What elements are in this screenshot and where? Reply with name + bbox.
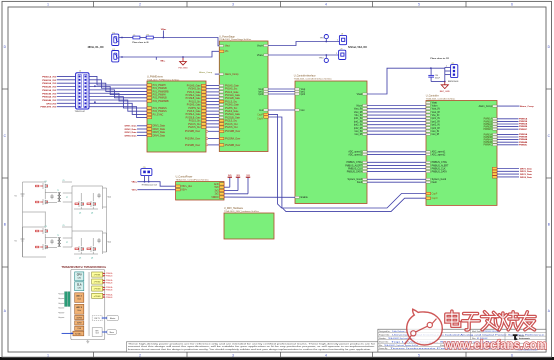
wires labels to J4 — [57, 76, 76, 106]
svg-text:TSW-110-07: TSW-110-07 — [75, 111, 86, 113]
svg-text:3V3: 3V3 — [215, 190, 220, 192]
svg-text:PMBUS_CLK: PMBUS_CLK — [348, 168, 362, 170]
svg-text:VBa+: VBa+ — [161, 29, 167, 31]
cpu box CPU — [75, 272, 84, 281]
svg-text:ePWM4: ePWM4 — [94, 296, 101, 298]
svg-text:Vbu_IN: Vbu_IN — [354, 115, 362, 117]
svg-text:System_Good: System_Good — [432, 178, 447, 181]
connector J11 — [445, 65, 458, 78]
J15 pin stubs — [144, 176, 146, 182]
bridge interconnect wires — [23, 202, 107, 257]
svg-text:PWM1A: PWM1A — [484, 118, 493, 121]
svg-text:V1: V1 — [15, 241, 17, 243]
svg-text:Q6: Q6 — [91, 258, 93, 260]
svg-text:Number:: Number: — [379, 337, 387, 340]
svg-text:PV2SLB_Gate: PV2SLB_Gate — [186, 116, 202, 119]
wire PowerStage Vout+ to J8 — [268, 42, 339, 46]
svg-text:PV1SLB_Gate: PV1SLB_Gate — [225, 97, 241, 100]
svg-text:Vout_Rf: Vout_Rf — [354, 111, 363, 114]
svg-text:Fault: Fault — [432, 181, 437, 184]
svg-text:DRV2_Data: DRV2_Data — [125, 128, 138, 131]
svg-text:Designed for:: Designed for: — [379, 330, 391, 333]
svg-text:Ipri1_Rf: Ipri1_Rf — [432, 120, 440, 123]
svg-text:PV2_PWMLB: PV2_PWMLB — [153, 98, 168, 100]
svg-text:PV2SRB_Over: PV2SRB_Over — [185, 144, 201, 147]
svg-text:ADC_speed1: ADC_speed1 — [348, 151, 362, 154]
svg-text:PMBUS_ALERT: PMBUS_ALERT — [432, 164, 449, 167]
svg-text:Vbatt: Vbatt — [357, 93, 363, 96]
svg-text:Iout: Iout — [259, 109, 263, 112]
svg-text:PV1_PWMLS: PV1_PWMLS — [153, 108, 168, 110]
svg-text:PWM-3A_3V3: PWM-3A_3V3 — [42, 89, 57, 92]
svg-text:ADC_speed2: ADC_speed2 — [348, 153, 362, 156]
svg-text:PV2CS_Out: PV2CS_Out — [225, 126, 238, 129]
svg-text:Vout: Vout — [225, 45, 230, 48]
U_PowerStage CapP CapN pins — [264, 113, 269, 115]
svg-text:PV2LS_Gate: PV2LS_Gate — [187, 110, 201, 113]
svg-text:BATMON4-B: BATMON4-B — [448, 80, 459, 83]
cpu ground symbol — [87, 340, 89, 342]
svg-text:6: 6 — [511, 353, 513, 357]
svg-text:Ipri2_Rf: Ipri2_Rf — [432, 127, 440, 130]
inductor L1 — [133, 36, 140, 39]
svg-text:TIDA-1001_Controller.SchDoc: TIDA-1001_Controller.SchDoc — [426, 97, 456, 100]
svg-text:PMBUS_ALERT: PMBUS_ALERT — [345, 164, 362, 167]
wire V5V+ to ControlPower — [137, 189, 175, 191]
elecfans watermark — [405, 309, 547, 352]
fuse F3 — [146, 36, 153, 39]
TI logo — [513, 334, 530, 340]
svg-text:PV2SLB_Gate: PV2SLB_Gate — [225, 116, 241, 119]
svg-text:Vout_IN: Vout_IN — [354, 108, 363, 111]
svg-text:PV1_PWMLB: PV1_PWMLB — [153, 88, 168, 90]
svg-text:Sheet Title:: Sheet Title: — [379, 341, 389, 344]
svg-text:V5V+: V5V+ — [132, 190, 138, 192]
title block grid — [378, 329, 546, 352]
svg-text:ADC_speed1: ADC_speed1 — [432, 151, 446, 154]
svg-text:licensees do not warrant that: licensees do not warrant that the design… — [128, 348, 372, 351]
svg-text:U_PWMDrivers: U_PWMDrivers — [147, 76, 164, 79]
svg-text:1: 1 — [336, 53, 337, 55]
svg-text:DRV1_Data: DRV1_Data — [520, 167, 533, 170]
svg-text:PV2LS_Gate: PV2LS_Gate — [225, 110, 239, 113]
svg-text:3: 3 — [232, 2, 234, 6]
svg-text:CapP: CapP — [257, 114, 263, 116]
svg-text:1V2: 1V2 — [215, 194, 220, 196]
svg-text:3: 3 — [232, 353, 234, 357]
connector J4 header — [76, 73, 89, 109]
svg-text:CPU: CPU — [77, 275, 82, 277]
svg-text:PWM-2B_3V3: PWM-2B_3V3 — [42, 87, 57, 89]
disclaimer text — [128, 342, 376, 351]
discrete bridge stage 2 — [15, 225, 112, 260]
wire L1 to F3 — [140, 37, 146, 39]
svg-text:PV2_PWMSRB: PV2_PWMSRB — [153, 101, 169, 103]
wire Enable to ControlPower — [224, 196, 295, 198]
svg-text:Ipri1_Rf: Ipri1_Rf — [354, 120, 362, 123]
svg-text:PV2SRB_Over: PV2SRB_Over — [225, 144, 241, 147]
svg-text:PV2CS_Out: PV2CS_Out — [188, 126, 201, 129]
svg-text:SDFM: SDFM — [77, 323, 82, 325]
svg-text:These high-density power produ: These high-density power products are fo… — [128, 342, 376, 345]
U_ControlPower left pins — [176, 185, 181, 187]
svg-text:Project Title:: Project Title: — [379, 333, 390, 336]
wire PowerStage Vbat+ to J9 — [268, 54, 339, 56]
svg-text:PWM-1B: PWM-1B — [106, 276, 112, 278]
wires PowerStage to ControllerInterface — [258, 88, 305, 112]
svg-text:PV1HS_Gate: PV1HS_Gate — [225, 84, 240, 87]
svg-text:TIDA-1001_ControlPower.SchDoc: TIDA-1001_ControlPower.SchDoc — [176, 178, 210, 181]
svg-text:PV1_PWMH: PV1_PWMH — [153, 85, 166, 87]
svg-text:PMBUS_DATA: PMBUS_DATA — [347, 171, 363, 174]
svg-text:PWM-SYN_3V3: PWM-SYN_3V3 — [41, 107, 57, 109]
stub to VBa+ — [162, 31, 164, 38]
fuse F1 — [112, 34, 119, 45]
wire CapN bus — [268, 117, 426, 212]
svg-text:U_PowerStage: U_PowerStage — [219, 35, 235, 38]
svg-text:PWM4A: PWM4A — [519, 138, 528, 141]
svg-text:Vout: Vout — [108, 241, 112, 244]
svg-text:PWM4A: PWM4A — [484, 139, 493, 142]
svg-text:C7: C7 — [66, 242, 68, 244]
cpu Slave label — [107, 330, 117, 335]
svg-text:CapP: CapP — [432, 193, 438, 195]
svg-text:Q6: Q6 — [91, 213, 93, 215]
svg-text:ePWM2: ePWM2 — [94, 282, 101, 284]
svg-text:PV2SLA_Gate: PV2SLA_Gate — [225, 113, 241, 116]
svg-text:5V0: 5V0 — [215, 187, 220, 189]
svg-text:www.elecfans.com: www.elecfans.com — [443, 337, 547, 352]
sheet symbol U_ControlPower — [176, 182, 224, 201]
svg-text:C5: C5 — [63, 180, 65, 182]
svg-text:5V0: 5V0 — [228, 175, 231, 177]
sheet symbol U_ControllerInterface — [295, 81, 367, 204]
svg-text:DRV2_Data: DRV2_Data — [520, 170, 533, 173]
svg-text:Q1: Q1 — [45, 181, 47, 183]
cpu box ADC1 — [75, 293, 84, 303]
svg-text:PWM-4B_3V3: PWM-4B_3V3 — [42, 99, 57, 102]
svg-text:Ipri2_IN: Ipri2_IN — [432, 124, 440, 127]
svg-text:PV1SLB_Gate: PV1SLB_Gate — [186, 97, 202, 100]
svg-text:PMBUS_CLK: PMBUS_CLK — [432, 168, 446, 170]
svg-text:C28x: C28x — [77, 278, 81, 280]
svg-text:1V2: 1V2 — [246, 175, 249, 177]
svg-text:PWM2C: PWM2C — [483, 129, 492, 131]
svg-text:2: 2 — [139, 353, 141, 357]
svg-text:PV2SRA_Over: PV2SRA_Over — [185, 137, 201, 140]
svg-text:Place close to J11: Place close to J11 — [430, 57, 450, 60]
svg-text:2: 2 — [139, 2, 141, 6]
U_PowerStage right top pins — [264, 44, 268, 46]
wire cap to gnd — [431, 81, 445, 83]
cpu internal bus — [87, 272, 89, 336]
cpu box SDFM — [75, 321, 84, 325]
svg-text:CLB: CLB — [96, 333, 99, 335]
svg-text:PMBUS_CTRL: PMBUS_CTRL — [347, 162, 363, 164]
U_Controller right pins and net labels — [479, 105, 535, 179]
cpu ePWM boxes with arrows — [92, 272, 114, 299]
svg-text:Q3: Q3 — [45, 226, 47, 228]
svg-text:Iout_IN: Iout_IN — [355, 130, 363, 133]
wire bus J4 to PWMDrivers — [89, 76, 147, 117]
svg-text:Ipri1_IN: Ipri1_IN — [354, 117, 362, 120]
test point TP10 — [324, 58, 328, 62]
svg-text:HT3M4-1Q1-D 1-B: HT3M4-1Q1-D 1-B — [142, 184, 158, 186]
black bottom strip — [0, 357, 554, 360]
cpu box CMPSS — [75, 315, 84, 319]
svg-text:Vbatt: Vbatt — [432, 102, 438, 105]
cpu outer box — [71, 269, 105, 339]
svg-text:PV2SLA_Gate: PV2SLA_Gate — [186, 113, 202, 116]
test point TP3 — [324, 35, 328, 39]
svg-text:PV2LS_Src: PV2LS_Src — [189, 120, 202, 123]
svg-text:PV1SRB_Over: PV1SRB_Over — [225, 130, 241, 133]
svg-text:PWM2A: PWM2A — [484, 123, 493, 126]
svg-text:Q5: Q5 — [79, 213, 81, 215]
power rails above ControlPower — [224, 175, 250, 194]
svg-text:1: 1 — [446, 66, 447, 68]
svg-text:SPI /: SPI / — [95, 330, 99, 332]
discrete bridge stage 1 — [15, 180, 112, 215]
svg-text:Alarm_Comp: Alarm_Comp — [479, 105, 493, 108]
U_PWMDrivers left pins — [147, 84, 169, 138]
U_ControlPower right pins — [211, 183, 224, 199]
connector J9 — [339, 50, 346, 59]
wire CI to J11 — [367, 68, 445, 94]
U_PowerStage top-left pins — [219, 45, 230, 54]
svg-text:Enable: Enable — [301, 197, 309, 199]
svg-text:PV2HS_Gate: PV2HS_Gate — [225, 104, 240, 107]
wires PWMDrivers to PowerStage with pins — [185, 84, 241, 147]
sheet symbol U_PowerStage — [219, 41, 268, 152]
svg-text:DRV2_Data: DRV2_Data — [153, 128, 166, 131]
svg-text:CapN: CapN — [257, 118, 263, 120]
svg-text:Alarm_Comp: Alarm_Comp — [199, 71, 213, 74]
svg-text:1: 1 — [337, 40, 338, 42]
svg-text:Ipri1_IN: Ipri1_IN — [432, 117, 440, 120]
svg-text:VBa+: VBa+ — [131, 182, 137, 184]
U_Controller Vbatt pin — [426, 102, 430, 104]
wire row2 F2 to PowerStage Vin — [119, 51, 220, 57]
svg-text:PV2_PWMH: PV2_PWMH — [153, 95, 166, 97]
svg-text:Drawn By:: Drawn By: — [379, 347, 388, 350]
svg-text:PV1HS_Gate: PV1HS_Gate — [187, 84, 202, 87]
wire CapP bus — [268, 114, 426, 208]
wire bus ControllerInterface to Controller — [345, 104, 449, 184]
svg-text:PWM-2B: PWM-2B — [106, 283, 112, 285]
sheet symbol U_PWMDrivers — [147, 81, 206, 152]
svg-text:V5V+_Alw: V5V+_Alw — [181, 185, 192, 188]
svg-text:5: 5 — [418, 353, 420, 357]
svg-text:System_Good: System_Good — [347, 178, 362, 181]
svg-text:Ipri2: Ipri2 — [301, 93, 306, 96]
svg-text:Vdcm: Vdcm — [356, 105, 362, 107]
capacitor C34 — [430, 68, 432, 75]
svg-text:T1: T1 — [57, 190, 59, 192]
svg-text:PWM-2A_3V3: PWM-2A_3V3 — [42, 82, 57, 85]
svg-text:Iout: Iout — [301, 109, 305, 112]
svg-text:BAT_GND: BAT_GND — [440, 90, 451, 93]
svg-text:B: B — [548, 223, 550, 227]
svg-text:1: 1 — [47, 2, 49, 6]
svg-text:V1: V1 — [15, 196, 17, 198]
ground BAT_GND — [441, 85, 448, 89]
svg-text:DRV3_Data: DRV3_Data — [153, 131, 166, 134]
svg-text:PV1CS_Out: PV1CS_Out — [225, 123, 238, 126]
svg-text:4: 4 — [325, 2, 327, 6]
svg-text:Ipri2_IN: Ipri2_IN — [354, 124, 362, 127]
svg-text:DRV3_Data: DRV3_Data — [520, 173, 533, 176]
cpu box BufDAC — [73, 331, 84, 336]
svg-text:PWM2C: PWM2C — [519, 129, 528, 131]
svg-text:warrant that this design will: warrant that this design will meet the s… — [128, 345, 376, 348]
wire J11 vertical — [444, 67, 446, 81]
svg-text:PV1SRB_Over: PV1SRB_Over — [185, 130, 201, 133]
svg-text:GPIO-3V3: GPIO-3V3 — [46, 103, 57, 105]
svg-text:Place close to J6: Place close to J6 — [132, 41, 149, 44]
svg-text:PV1HS_Src: PV1HS_Src — [225, 88, 238, 91]
svg-text:PV1LS_Src: PV1LS_Src — [189, 100, 202, 103]
svg-text:U_Controller: U_Controller — [426, 94, 439, 97]
cpu box CLA — [75, 282, 84, 291]
sheet symbol U_Controller — [426, 101, 497, 206]
svg-text:T1: T1 — [57, 235, 59, 237]
svg-text:TIDA-010025_TopLevel_System.Sc: TIDA-010025_TopLevel_System.SchDoc — [384, 344, 418, 347]
svg-text:5: 5 — [418, 2, 420, 6]
U_ControllerInterface Enable pin — [295, 196, 299, 198]
svg-text:TIDA-1001_PowerStage.SchDoc: TIDA-1001_PowerStage.SchDoc — [219, 38, 252, 41]
svg-text:PV1HS_Src: PV1HS_Src — [188, 88, 201, 91]
svg-text:ADC_speed2: ADC_speed2 — [432, 153, 446, 156]
title block text — [379, 330, 544, 352]
svg-text:3V3: 3V3 — [236, 175, 239, 177]
svg-text:Vout+: Vout+ — [257, 44, 264, 47]
svg-text:PWM-4B: PWM-4B — [106, 297, 112, 299]
svg-text:PWM-1B_3V3: PWM-1B_3V3 — [42, 80, 57, 82]
svg-text:Vdcm: Vdcm — [432, 105, 438, 107]
svg-text:PWM-3B_3V3: PWM-3B_3V3 — [42, 93, 57, 95]
svg-text:V5V+: V5V+ — [181, 190, 187, 192]
svg-text:PV1LS_Gate: PV1LS_Gate — [187, 91, 201, 94]
cpu dac input arrow — [62, 332, 73, 334]
sheet symbol U_DRV_Hardware — [224, 213, 274, 239]
net label VBa- — [155, 57, 157, 60]
svg-text:PM_GND: PM_GND — [178, 67, 188, 69]
net labels DRV data — [125, 125, 147, 138]
svg-text:Vbu_IN: Vbu_IN — [432, 115, 440, 117]
svg-text:Vbat+: Vbat+ — [257, 54, 264, 57]
svg-text:PMBUS_DATA: PMBUS_DATA — [432, 171, 448, 174]
svg-text:PWM3A: PWM3A — [484, 133, 493, 136]
svg-text:ePWM1: ePWM1 — [94, 275, 101, 277]
svg-text:DRV1_Data: DRV1_Data — [153, 125, 166, 128]
svg-text:TIDA-1001_PWMDrivers.SchDoc: TIDA-1001_PWMDrivers.SchDoc — [147, 78, 180, 81]
fuse F2 — [112, 51, 119, 62]
svg-text:FSI TX: FSI TX — [94, 318, 100, 320]
svg-text:L1: L1 — [133, 34, 135, 36]
svg-text:PV2HS_Src: PV2HS_Src — [188, 107, 201, 110]
svg-text:Iout_IN: Iout_IN — [432, 130, 440, 133]
svg-text:Master: Master — [110, 317, 116, 320]
svg-text:U_ControllerInterface: U_ControllerInterface — [294, 75, 317, 78]
svg-text:1: 1 — [47, 353, 49, 357]
svg-text:U_DRV_Hardware: U_DRV_Hardware — [224, 207, 244, 210]
svg-text:ADC 1: ADC 1 — [76, 295, 82, 298]
svg-text:GnD: GnD — [214, 184, 219, 186]
svg-text:PWM-3B: PWM-3B — [106, 290, 112, 292]
svg-text:CapN: CapN — [432, 198, 438, 200]
net labels left of J4 — [41, 75, 57, 108]
connector J8 — [339, 35, 346, 44]
cpu box ADC2 — [75, 304, 84, 314]
svg-text:ePWM3: ePWM3 — [94, 289, 101, 291]
svg-text:DRV1_Data: DRV1_Data — [125, 125, 138, 128]
svg-text:PV2HS_Gate: PV2HS_Gate — [187, 104, 202, 107]
svg-text:4: 4 — [325, 353, 327, 357]
U_ControllerInterface Interface pin — [363, 93, 367, 95]
svg-text:C5: C5 — [63, 225, 65, 227]
svg-text:PV2HS_Src: PV2HS_Src — [225, 107, 238, 110]
svg-text:Alarm_Comp: Alarm_Comp — [520, 105, 534, 108]
cpu FSI box — [92, 316, 102, 321]
svg-text:DRV4_Data: DRV4_Data — [520, 176, 533, 179]
svg-text:6: 6 — [511, 2, 513, 6]
cpu SPI box — [92, 328, 102, 337]
svg-text:PMBUS_CTRL: PMBUS_CTRL — [432, 162, 448, 164]
svg-text:PV1LS_Gate: PV1LS_Gate — [225, 91, 239, 94]
svg-text:U_ControlPower: U_ControlPower — [176, 175, 193, 178]
svg-text:PWM-1A_3V3: PWM-1A_3V3 — [42, 75, 57, 78]
svg-text:Slave: Slave — [109, 332, 114, 334]
connector J15 — [141, 169, 152, 176]
svg-text:PV2LS_Src: PV2LS_Src — [225, 120, 238, 123]
U_PowerStage Alarm pin — [219, 73, 223, 75]
svg-text:Vout_Rf: Vout_Rf — [432, 111, 441, 114]
svg-text:Fault: Fault — [357, 181, 362, 184]
cpu box PGA — [75, 326, 84, 330]
svg-text:Vout_IN: Vout_IN — [432, 108, 441, 111]
svg-text:TMS320F2837x/ TMS320F28004x: TMS320F2837x/ TMS320F28004x — [61, 265, 106, 269]
svg-text:TIDA-1001_ControllerInterface.: TIDA-1001_ControllerInterface.SchDoc — [294, 78, 333, 81]
wire F1 to L1 — [119, 37, 133, 39]
svg-text:DRV4_Data: DRV4_Data — [153, 134, 166, 137]
svg-text:PV1_PWMSRB: PV1_PWMSRB — [153, 91, 169, 93]
wire Alarm_Comp — [215, 73, 220, 75]
svg-text:Alarm_Comp: Alarm_Comp — [225, 73, 239, 76]
svg-text:PV1CS_Out: PV1CS_Out — [188, 123, 201, 126]
cpu Master label — [107, 315, 119, 320]
svg-text:100uF: 100uF — [435, 77, 441, 79]
wire row1 to PowerStage Vout — [153, 38, 219, 46]
svg-text:F3: F3 — [147, 34, 149, 36]
svg-text:Iout_Rf: Iout_Rf — [432, 133, 440, 136]
svg-text:CMPSS: CMPSS — [76, 317, 82, 319]
svg-text:PWM4C: PWM4C — [483, 145, 492, 147]
svg-text:DRV3_Data: DRV3_Data — [125, 131, 138, 134]
cpu analog input bars — [58, 292, 70, 319]
svg-text:52Vout, 50A, DC: 52Vout, 50A, DC — [348, 46, 367, 49]
disclaimer box — [126, 342, 378, 352]
svg-text:PV1SLA_Gate: PV1SLA_Gate — [225, 94, 241, 97]
svg-text:TIDA-1001_DRV_hardware.SchDoc: TIDA-1001_DRV_hardware.SchDoc — [224, 210, 260, 213]
svg-text:C28x: C28x — [77, 288, 81, 290]
svg-text:Q5: Q5 — [79, 258, 81, 260]
svg-text:PV2_PWMLS: PV2_PWMLS — [153, 111, 168, 113]
svg-text:PWM2A: PWM2A — [519, 123, 528, 126]
svg-text:PWM-4A_3V3: PWM-4A_3V3 — [42, 96, 57, 99]
svg-text:PWM1A: PWM1A — [519, 117, 528, 120]
svg-text:Mod. Date:: Mod. Date: — [472, 330, 482, 333]
